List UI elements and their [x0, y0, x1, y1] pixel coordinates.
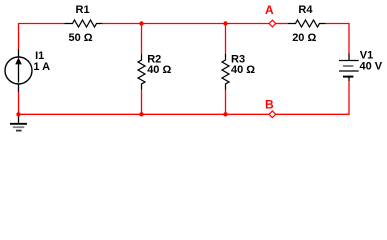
- wire R3 bottom: [225, 90, 227, 115]
- wire R4 to top-right corner down to V1: [326, 24, 349, 54]
- junction dot bottom R3: [223, 112, 227, 116]
- resistor R2: [138, 54, 171, 90]
- wire R2 bottom: [141, 90, 143, 115]
- svg-text:40 Ω: 40 Ω: [231, 64, 255, 76]
- node A: [265, 3, 276, 27]
- svg-text:40 V: 40 V: [360, 61, 383, 73]
- svg-text:R1: R1: [76, 4, 90, 16]
- junction dot top R2: [139, 21, 143, 25]
- junction dot bottom R2: [139, 112, 143, 116]
- svg-text:1 A: 1 A: [33, 61, 50, 73]
- resistor R4: [288, 4, 326, 44]
- resistor R3: [222, 54, 255, 90]
- wire bottom (node B to ground): [19, 113, 270, 115]
- ground: [10, 114, 27, 130]
- svg-text:A: A: [265, 3, 274, 17]
- node B: [265, 98, 276, 118]
- wire top middle (R1 to node A): [102, 23, 269, 25]
- svg-text:40 Ω: 40 Ω: [147, 64, 171, 76]
- junction dot top R3: [223, 21, 227, 25]
- wire node A to R4: [276, 23, 288, 25]
- wire top-left L (from I1 up and right to R1): [19, 24, 65, 50]
- wire R2 top: [141, 24, 143, 55]
- wire V1 bottom to bottom-right corner to node B: [276, 81, 349, 114]
- junction dot ground: [16, 112, 20, 116]
- wire R3 top: [225, 24, 227, 55]
- svg-text:20 Ω: 20 Ω: [292, 32, 316, 44]
- wire I1 bottom lead to ground node: [18, 92, 20, 114]
- svg-text:B: B: [265, 98, 274, 112]
- battery V1: [339, 50, 383, 81]
- svg-text:50 Ω: 50 Ω: [69, 32, 93, 44]
- svg-text:R4: R4: [298, 4, 313, 16]
- current source I1: [5, 49, 50, 92]
- resistor R1: [64, 4, 102, 44]
